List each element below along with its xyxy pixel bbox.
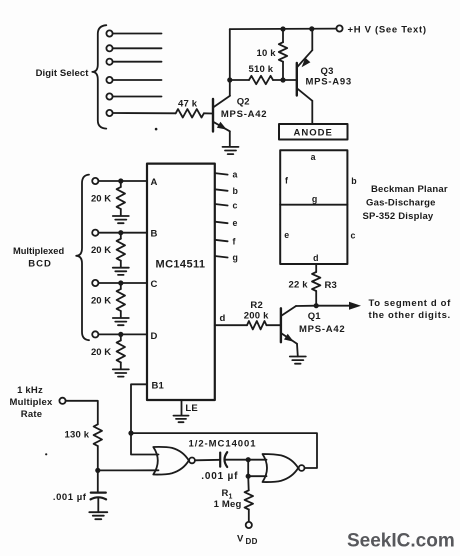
terminal +H V bbox=[336, 25, 342, 31]
wire d output bbox=[215, 324, 247, 326]
wire Q2 emitter down bbox=[229, 131, 231, 146]
wire R3 to node bbox=[315, 291, 317, 306]
svg-text:To segment d of: To segment d of bbox=[369, 298, 452, 309]
node Q3 emitter top bbox=[309, 26, 314, 31]
wire cap to gate2 inputs bbox=[226, 459, 249, 461]
svg-text:Multiplexed: Multiplexed bbox=[13, 246, 64, 256]
svg-text:MPS-A42: MPS-A42 bbox=[299, 324, 345, 335]
svg-text:b: b bbox=[233, 186, 239, 196]
svg-text:Digit Select: Digit Select bbox=[36, 68, 90, 79]
resistor 130k bbox=[94, 424, 102, 446]
svg-text:b: b bbox=[351, 176, 357, 186]
svg-text:.001 µf: .001 µf bbox=[53, 492, 87, 503]
svg-text:A: A bbox=[151, 177, 158, 188]
svg-text:V: V bbox=[237, 534, 244, 545]
wire input C bbox=[99, 282, 148, 284]
svg-text:Multiplex: Multiplex bbox=[10, 397, 53, 408]
svg-text:D: D bbox=[151, 331, 158, 342]
ground Q1 emitter bbox=[290, 356, 306, 358]
terminal VDD bbox=[246, 522, 252, 528]
wire input D bbox=[99, 333, 148, 335]
svg-text:R3: R3 bbox=[325, 280, 338, 291]
wire digit select line 3 bbox=[113, 61, 162, 63]
node input D bbox=[118, 332, 123, 337]
terminal 1 kHz multiplex rate bbox=[59, 398, 65, 404]
node 10k top bbox=[280, 26, 285, 31]
svg-text:1 Meg: 1 Meg bbox=[214, 499, 242, 510]
svg-text:510 k: 510 k bbox=[249, 64, 274, 75]
svg-text:MPS-A93: MPS-A93 bbox=[306, 76, 352, 87]
svg-text:200 k: 200 k bbox=[244, 311, 269, 322]
svg-text:1 kHz: 1 kHz bbox=[17, 385, 43, 396]
capacitor .001uf (timing) bbox=[97, 470, 99, 492]
IC MC14511 box bbox=[147, 164, 215, 400]
svg-text:d: d bbox=[220, 313, 226, 324]
ground LE bbox=[174, 415, 189, 417]
node 130k / cap / gate1 input bbox=[95, 468, 100, 473]
output stub b bbox=[215, 189, 228, 191]
svg-text:Q2: Q2 bbox=[237, 96, 250, 107]
svg-text:MC14511: MC14511 bbox=[156, 259, 206, 271]
digit select terminal 5 bbox=[106, 93, 112, 99]
NOR gate U2b 1/2-MC14001 bbox=[263, 454, 305, 482]
transistor Q2 MPS-A42 bbox=[213, 96, 267, 132]
input terminal C bbox=[92, 280, 98, 286]
svg-text:g: g bbox=[312, 194, 317, 204]
svg-text:22 k: 22 k bbox=[289, 279, 309, 290]
output stub a bbox=[215, 173, 228, 175]
svg-text:10 k: 10 k bbox=[257, 48, 277, 59]
digit select terminal 6 bbox=[106, 110, 112, 116]
svg-text:Beckman Planar: Beckman Planar bbox=[371, 184, 448, 195]
wire 47k to Q2 base bbox=[204, 112, 212, 114]
wire digit select line 2 bbox=[113, 47, 162, 49]
resistor 20K input A bbox=[120, 181, 122, 187]
svg-text:c: c bbox=[351, 230, 356, 240]
node input B bbox=[118, 230, 123, 235]
wire digit select line 6 to 47k bbox=[113, 112, 176, 114]
svg-text:Gas-Discharge: Gas-Discharge bbox=[366, 198, 436, 209]
resistor R2 200k bbox=[247, 321, 267, 329]
wire Q2 collector up bbox=[229, 29, 231, 96]
svg-text:a: a bbox=[233, 170, 238, 180]
digit select terminal 2 bbox=[106, 45, 112, 51]
svg-text:a: a bbox=[311, 152, 316, 162]
svg-text:g: g bbox=[233, 253, 238, 263]
svg-text:.001 µf: .001 µf bbox=[201, 471, 238, 482]
digit select terminal 3 bbox=[106, 59, 112, 65]
svg-text:C: C bbox=[151, 279, 158, 290]
output stub f bbox=[215, 240, 228, 242]
svg-text:20 K: 20 K bbox=[91, 347, 111, 358]
ground Q2 emitter bbox=[223, 146, 239, 148]
svg-text:R2: R2 bbox=[250, 300, 263, 311]
digit select terminal 4 bbox=[106, 77, 112, 83]
svg-text:f: f bbox=[285, 175, 288, 185]
output stub c bbox=[215, 204, 228, 206]
svg-text:f: f bbox=[233, 236, 236, 246]
svg-text:47 k: 47 k bbox=[178, 99, 198, 110]
svg-text:e: e bbox=[233, 218, 238, 228]
digit select terminal 1 bbox=[106, 30, 112, 36]
wire digit select line 4 bbox=[113, 79, 162, 81]
resistor 20K input B bbox=[120, 233, 122, 239]
stray dot mark 2 bbox=[45, 453, 47, 455]
wire 130k to node bbox=[97, 446, 99, 470]
resistor 10k bbox=[282, 29, 284, 42]
svg-text:LE: LE bbox=[185, 403, 198, 414]
resistor 510k bbox=[230, 79, 249, 81]
svg-text:BCD: BCD bbox=[28, 258, 52, 269]
svg-text:c: c bbox=[233, 201, 238, 211]
transistor Q3 MPS-A93 bbox=[297, 50, 352, 101]
resistor 20K input C bbox=[120, 283, 122, 289]
node B1 / feedback bbox=[128, 431, 133, 436]
ground 20K input A bbox=[113, 215, 129, 217]
wire 1kHz to 130k bbox=[66, 401, 98, 425]
input terminal B bbox=[92, 230, 98, 236]
wire node to gate1 input bbox=[98, 469, 159, 471]
ground timing cap bbox=[89, 511, 107, 513]
wire gate2 output feedback bbox=[131, 433, 317, 468]
wire gate2 input to R1 bbox=[247, 476, 250, 490]
node Q2 collector / 510k bbox=[227, 77, 232, 82]
wire Q3 emitter up bbox=[311, 29, 313, 50]
svg-text:20 K: 20 K bbox=[91, 194, 111, 205]
box ANODE bbox=[279, 124, 348, 140]
wire input B bbox=[99, 232, 148, 234]
node R3 / Q1 collector bbox=[314, 303, 319, 308]
wire LE bbox=[181, 400, 183, 415]
svg-text:the other digits.: the other digits. bbox=[369, 310, 451, 321]
ground 20K input B bbox=[113, 267, 129, 269]
ground 20K input C bbox=[113, 317, 129, 319]
input terminal A bbox=[92, 178, 98, 184]
resistor R1 1 Meg bbox=[245, 490, 253, 509]
wire input A bbox=[99, 180, 148, 182]
node input C bbox=[118, 280, 123, 285]
brace digit select bbox=[92, 25, 106, 128]
svg-text:Rate: Rate bbox=[21, 409, 42, 420]
wire arrow to other digits bbox=[316, 305, 350, 307]
svg-text:+H V (See Text): +H V (See Text) bbox=[348, 24, 427, 35]
svg-text:20 K: 20 K bbox=[91, 296, 111, 307]
wire Q3 collector to anode bbox=[311, 101, 313, 124]
brace Multiplexed BCD bbox=[76, 175, 89, 341]
svg-text:R: R bbox=[222, 488, 229, 499]
transistor Q1 MPS-A42 bbox=[281, 306, 346, 344]
node gate2 input top bbox=[246, 457, 251, 462]
resistor R3 22k bbox=[312, 272, 320, 291]
svg-text:Q1: Q1 bbox=[308, 311, 322, 322]
display divider g bbox=[280, 204, 347, 206]
wire Q1 emitter to ground bbox=[296, 344, 299, 357]
svg-text:1/2-MC14001: 1/2-MC14001 bbox=[189, 438, 257, 449]
resistor 20K input D bbox=[120, 334, 122, 340]
wire R1 to VDD terminal bbox=[248, 510, 250, 522]
ground 20K input D bbox=[113, 368, 129, 370]
svg-text:MPS-A42: MPS-A42 bbox=[221, 109, 267, 120]
svg-text:DD: DD bbox=[246, 537, 258, 546]
svg-text:20 K: 20 K bbox=[91, 245, 111, 256]
svg-text:SP-352 Display: SP-352 Display bbox=[363, 211, 434, 222]
wire display d to R3 bbox=[315, 264, 317, 272]
output stub e bbox=[215, 222, 228, 224]
svg-text:B: B bbox=[151, 228, 158, 239]
node 10k bottom / 510k right bbox=[280, 77, 285, 82]
svg-text:ANODE: ANODE bbox=[294, 127, 333, 138]
wire B1 bbox=[131, 384, 159, 454]
wire digit select line 1 bbox=[113, 33, 162, 35]
wire digit select line 5 bbox=[113, 96, 162, 98]
svg-text:130 k: 130 k bbox=[65, 430, 90, 441]
display Beckman SP-352 box bbox=[280, 150, 347, 264]
stray dot mark bbox=[155, 128, 158, 131]
node input A bbox=[118, 178, 123, 183]
svg-text:d: d bbox=[313, 253, 318, 263]
output stub g bbox=[215, 256, 228, 258]
node gate2 input bottom bbox=[246, 474, 251, 479]
NOR gate U2a 1/2-MC14001 bbox=[153, 447, 195, 475]
svg-text:e: e bbox=[284, 230, 289, 240]
svg-text:SeekIC.com: SeekIC.com bbox=[347, 531, 455, 552]
wire gate1 out to cap bbox=[195, 459, 220, 462]
resistor 47k bbox=[176, 109, 204, 117]
svg-text:B1: B1 bbox=[152, 380, 165, 391]
capacitor .001uf (coupling) bbox=[219, 453, 221, 467]
wire top rail bbox=[230, 28, 336, 31]
input terminal D bbox=[92, 331, 98, 337]
